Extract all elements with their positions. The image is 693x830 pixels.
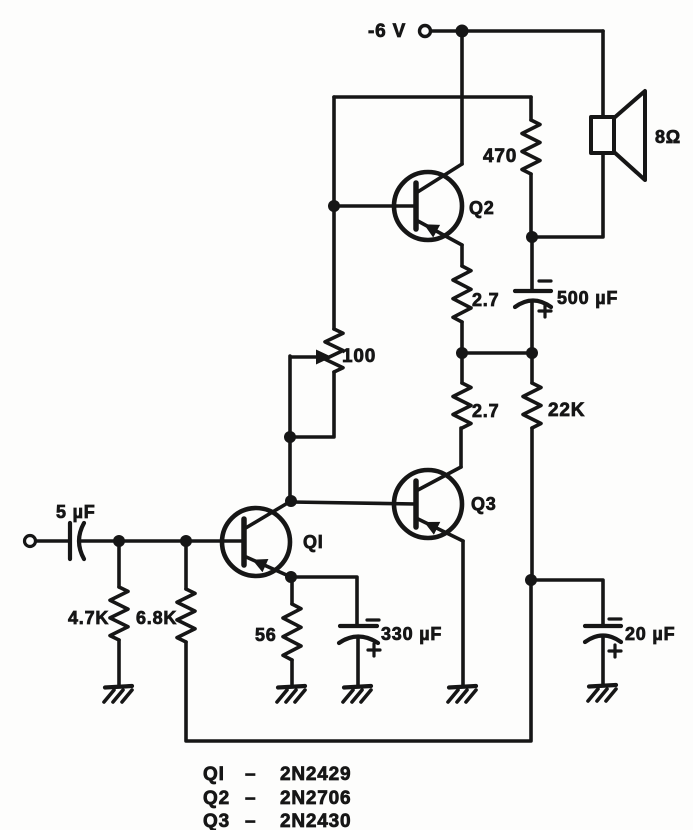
wire speaker bottom xyxy=(532,153,603,237)
node 500uF/22K junction xyxy=(526,347,538,359)
svg-text:–: – xyxy=(245,788,256,809)
wire Q3 collector xyxy=(459,428,463,467)
resistor 22K xyxy=(523,353,541,580)
input terminal xyxy=(25,536,36,547)
label Q3 xyxy=(471,494,497,514)
svg-text:6.8K: 6.8K xyxy=(136,608,177,628)
wire top rail xyxy=(431,29,603,33)
node 470/speaker/500uF xyxy=(526,231,538,243)
label 8 ohm xyxy=(655,127,681,147)
svg-text:8Ω: 8Ω xyxy=(655,127,681,147)
label 2.7 lower xyxy=(472,401,499,421)
label Q1 xyxy=(303,532,324,552)
resistor 2.7 upper xyxy=(453,245,471,353)
svg-text:QI: QI xyxy=(303,532,324,552)
wire top rail down to speaker xyxy=(601,31,605,117)
ground 20uF xyxy=(588,685,616,701)
wire input to 5uF xyxy=(36,539,70,543)
svg-text:Q3: Q3 xyxy=(471,494,497,514)
node pot bottom / wiper xyxy=(284,431,296,443)
label 56 xyxy=(255,625,277,645)
label 330uF xyxy=(381,624,442,644)
ground 56 xyxy=(277,686,305,702)
wire 5uF to Q1 base xyxy=(80,539,244,543)
transistor Q3 xyxy=(394,467,463,541)
wire Q2 base xyxy=(334,204,416,208)
capacitor 5uF xyxy=(70,523,84,559)
svg-text:5 µF: 5 µF xyxy=(56,502,96,522)
svg-text:Q2: Q2 xyxy=(469,198,495,218)
node supply junction xyxy=(456,25,469,38)
svg-text:2N2706: 2N2706 xyxy=(280,788,351,809)
resistor 56 xyxy=(283,577,301,686)
transistor Q1 xyxy=(222,501,291,577)
capacitor 20uF xyxy=(585,619,621,685)
node Q1 emitter xyxy=(285,571,297,583)
transistor Q2 xyxy=(394,164,462,245)
svg-text:470: 470 xyxy=(483,146,517,167)
wire left rail xyxy=(332,97,336,329)
label 6.8K xyxy=(136,608,177,628)
node 4.7K tap xyxy=(113,535,125,547)
resistor 6.8K xyxy=(177,541,195,642)
label 20uF xyxy=(625,624,675,644)
label -6V supply xyxy=(368,21,406,42)
label Q2 xyxy=(469,198,495,218)
label 22K xyxy=(548,400,585,421)
svg-text:-6 V: -6 V xyxy=(368,21,406,42)
svg-text:20 µF: 20 µF xyxy=(625,624,675,644)
svg-text:Q2: Q2 xyxy=(203,788,230,809)
potentiometer 100 xyxy=(290,329,343,437)
wire supply to Q2 collector xyxy=(460,31,464,164)
label 470 xyxy=(483,146,517,167)
label 4.7K xyxy=(68,608,109,628)
ground 330uF xyxy=(343,686,371,702)
svg-text:2N2430: 2N2430 xyxy=(280,811,351,830)
wire 22K bottom to 20uF xyxy=(531,580,603,624)
power terminal -6V xyxy=(420,26,431,37)
svg-text:500 µF: 500 µF xyxy=(557,288,618,308)
svg-text:Q3: Q3 xyxy=(203,811,230,830)
wire mid rail xyxy=(462,351,532,355)
svg-text:2N2429: 2N2429 xyxy=(280,764,351,785)
wire Q1 emitter to 330uF xyxy=(291,577,357,624)
label 5uF xyxy=(56,502,96,522)
svg-text:–: – xyxy=(245,764,256,785)
wire upper horizontal rail xyxy=(334,95,531,99)
svg-text:QI: QI xyxy=(203,764,225,785)
svg-text:–: – xyxy=(245,811,256,830)
svg-text:330 µF: 330 µF xyxy=(381,624,442,644)
node Q1 collector xyxy=(285,495,297,507)
node 22K bottom xyxy=(525,574,537,586)
svg-text:100: 100 xyxy=(342,346,376,367)
resistor 2.7 lower xyxy=(453,353,471,428)
svg-text:2.7: 2.7 xyxy=(472,401,499,421)
wire feedback bottom rail xyxy=(186,580,531,741)
ground Q3 emitter xyxy=(448,686,476,702)
label 100 xyxy=(342,346,376,367)
svg-text:22K: 22K xyxy=(548,400,585,421)
wire Q3 emitter to ground xyxy=(461,541,465,686)
ground 4.7K xyxy=(104,686,132,702)
svg-text:2.7: 2.7 xyxy=(472,290,499,310)
resistor 4.7K xyxy=(110,541,128,686)
node 6.8K tap xyxy=(180,535,192,547)
wire wiper rail down to Q1 collector xyxy=(288,356,292,501)
node 2.7/2.7 junction xyxy=(456,347,468,359)
label 500uF xyxy=(557,288,618,308)
svg-text:56: 56 xyxy=(255,625,277,645)
wire Q1 collector to Q3 base xyxy=(291,502,416,504)
label 2.7 upper xyxy=(472,290,499,310)
svg-text:4.7K: 4.7K xyxy=(68,608,109,628)
capacitor 330uF xyxy=(339,620,380,686)
node left rail / Q2 base xyxy=(328,200,340,212)
legend transistor types xyxy=(203,764,351,830)
resistor 470 xyxy=(522,97,540,237)
speaker 8 ohm xyxy=(591,91,645,180)
capacitor 500uF xyxy=(515,237,551,353)
